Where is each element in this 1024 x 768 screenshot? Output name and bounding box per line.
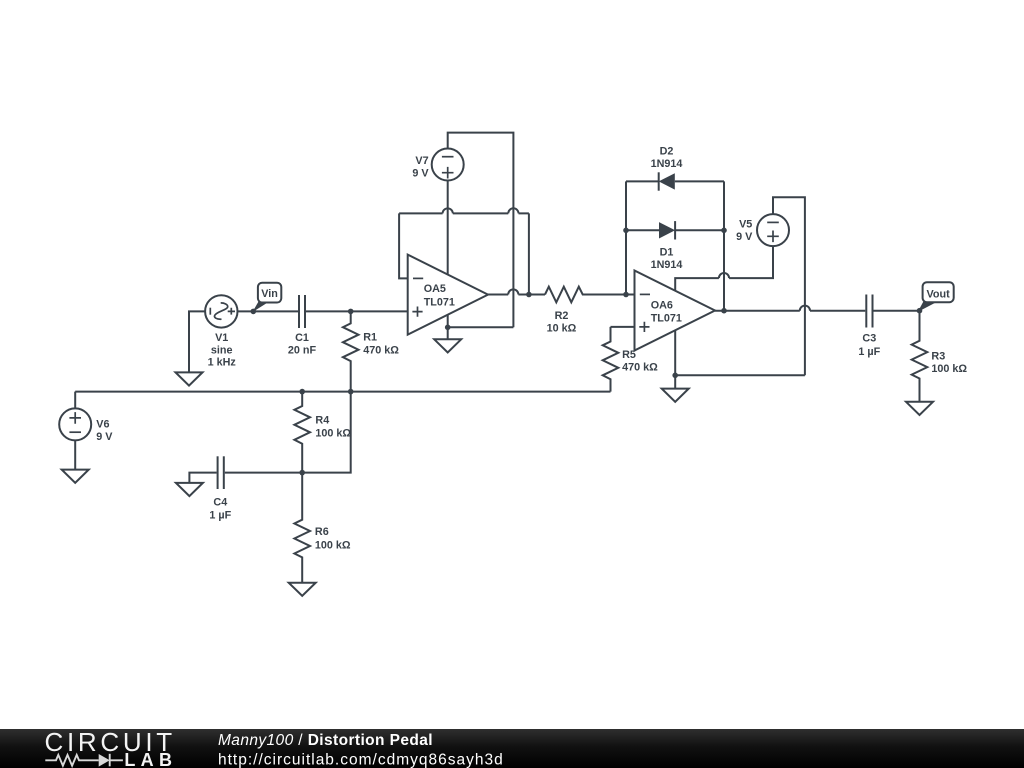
resistor R1 470 k — [343, 311, 359, 391]
label R5 470 k — [622, 349, 658, 374]
diode D2 1N914 — [626, 172, 724, 190]
svg-text:TL071: TL071 — [651, 312, 682, 324]
wire V1 right terminal to C1 — [238, 310, 299, 312]
ground below OA6 — [662, 389, 689, 402]
svg-text:100 kΩ: 100 kΩ — [315, 428, 351, 440]
op-amp OA5 TL071 — [408, 255, 488, 335]
svg-text:V7: V7 — [415, 155, 428, 167]
op-amp OA6 TL071 — [635, 271, 716, 351]
svg-text:R5: R5 — [622, 349, 636, 361]
ground below R6 — [289, 583, 316, 596]
wire OA6 output to C3 — [715, 310, 865, 312]
svg-text:OA5: OA5 — [424, 283, 446, 295]
ground below C4 — [176, 483, 203, 496]
wire C1 to OA5 noninverting input — [306, 310, 408, 312]
label R1 470 k — [363, 331, 399, 356]
ground below V1 — [176, 372, 203, 385]
wire OA6 ground node to V5 loop — [675, 374, 805, 376]
svg-text:470 kΩ: 470 kΩ — [622, 362, 658, 374]
resistor R2 10 k — [545, 287, 635, 303]
svg-text:1 kHz: 1 kHz — [208, 356, 237, 368]
svg-text:R6: R6 — [315, 526, 329, 538]
resistor R4 100 k — [294, 392, 310, 473]
wire diode branch right riser — [723, 181, 725, 310]
svg-text:D1: D1 — [660, 246, 674, 258]
label D2 1N914 — [651, 146, 683, 171]
svg-text:20 nF: 20 nF — [288, 344, 317, 356]
svg-text:9 V: 9 V — [736, 231, 753, 243]
label R6 100 k — [315, 526, 351, 551]
node OA6 inverting input junction dot — [623, 292, 629, 298]
label V1 sine 1 kHz — [208, 332, 237, 368]
diode D1 1N914 — [626, 221, 724, 239]
wire OA5 inverting input to feedback — [399, 213, 408, 278]
svg-text:OA6: OA6 — [651, 300, 673, 312]
svg-text:1 µF: 1 µF — [858, 346, 880, 358]
svg-text:470 kΩ: 470 kΩ — [363, 345, 399, 357]
svg-text:sine: sine — [211, 344, 233, 356]
wire V5 positive terminal to OA6 V+ pin — [675, 246, 773, 291]
wire OA6 noninverting input — [611, 326, 635, 328]
wire hop output over V5 loop — [800, 306, 810, 311]
label V7 9 V — [412, 155, 429, 179]
wire V7 negative terminal loop — [448, 133, 514, 328]
wire V7 positive terminal to OA5 V+ pin — [447, 180, 449, 274]
svg-text:C4: C4 — [213, 496, 227, 508]
wire C4 left plate to ground — [189, 473, 216, 483]
label V5 9 V — [736, 219, 753, 244]
label C4 1 uF — [209, 496, 231, 521]
wire V6 positive terminal to rail — [74, 392, 76, 409]
node Vout junction dot — [917, 308, 923, 314]
svg-text:R2: R2 — [555, 310, 569, 322]
node feedback/output junction dot — [526, 292, 532, 298]
wire diode branch left riser — [625, 181, 627, 294]
wire V5 negative terminal loop — [773, 197, 805, 375]
svg-text:V5: V5 — [739, 219, 752, 231]
wire hop over V7 lead — [443, 208, 453, 213]
svg-text:9 V: 9 V — [96, 431, 113, 443]
resistor R5 470 k — [603, 327, 619, 392]
label R4 100 k — [315, 415, 351, 440]
wire feedback down to output — [528, 213, 530, 294]
label OA5 TL071 — [424, 283, 455, 308]
svg-text:1N914: 1N914 — [651, 158, 683, 170]
svg-text:100 kΩ: 100 kΩ — [315, 539, 351, 551]
flag Vin — [252, 283, 281, 313]
flag Vout — [918, 282, 954, 312]
svg-text:Vout: Vout — [927, 289, 951, 301]
wire C4 right plate to bias node — [225, 472, 302, 474]
wire rail to bias node loop — [302, 392, 351, 473]
wire hop over supply lead — [508, 208, 518, 213]
svg-text:R3: R3 — [931, 351, 945, 363]
node R4 top junction dot — [299, 389, 305, 395]
node D1 left junction dot — [623, 228, 629, 234]
node OA5 V- junction dot — [445, 325, 451, 331]
ground below OA5 — [434, 339, 461, 352]
wire OA5 output — [488, 294, 545, 296]
wire C3 to Vout — [874, 310, 920, 312]
resistor R6 100 k — [294, 473, 310, 583]
wire V1 left terminal to ground — [189, 311, 206, 372]
svg-text:LAB: LAB — [124, 750, 177, 768]
wire OA6 V- pin to ground — [674, 331, 676, 389]
wire V6 negative terminal to ground — [74, 440, 76, 469]
label R3 100 k — [931, 351, 967, 376]
svg-text:R4: R4 — [315, 415, 329, 427]
resistor R3 100 k — [912, 311, 928, 402]
node Vin junction dot — [251, 309, 257, 315]
capacitor C4 1 uF — [218, 456, 224, 489]
wire bias rail — [75, 391, 610, 393]
svg-text:V6: V6 — [96, 419, 109, 431]
node junction dot C1/R1 — [348, 309, 354, 315]
svg-text:10 kΩ: 10 kΩ — [547, 323, 577, 335]
svg-text:1 µF: 1 µF — [209, 510, 231, 522]
wire hop over diode riser — [719, 273, 729, 278]
svg-text:TL071: TL071 — [424, 296, 455, 308]
wire feedback top run — [399, 212, 529, 214]
node OA6 ground junction dot — [672, 373, 678, 379]
svg-text:Vin: Vin — [261, 288, 278, 300]
node D1 right junction dot — [721, 228, 727, 234]
label R2 10 k — [547, 310, 577, 335]
ground below V6 — [62, 470, 89, 483]
svg-text:1N914: 1N914 — [651, 259, 683, 271]
label C3 1 uF — [858, 333, 880, 358]
svg-text:V1: V1 — [215, 332, 228, 344]
wire hop output over supply lead — [508, 289, 518, 294]
svg-text:http://circuitlab.com/cdmyq86s: http://circuitlab.com/cdmyq86sayh3d — [218, 751, 504, 768]
voltage source V1 (sine 1 kHz) — [205, 295, 237, 327]
wire OA5 V- pin to ground — [447, 315, 449, 340]
svg-text:100 kΩ: 100 kΩ — [931, 363, 967, 375]
label V6 9 V — [96, 419, 113, 444]
svg-text:C1: C1 — [295, 332, 309, 344]
node R1 bottom junction dot — [348, 389, 354, 395]
node bias junction dot — [299, 470, 305, 476]
logo schematic glyph — [45, 754, 123, 767]
wire OA5 V- node to supply loop — [448, 326, 514, 328]
label OA6 TL071 — [651, 300, 682, 325]
voltage source V6 9 V — [59, 408, 91, 440]
svg-text:C3: C3 — [862, 333, 876, 345]
node OA6 output junction dot — [721, 308, 727, 314]
capacitor C3 1 uF — [866, 295, 872, 328]
label D1 1N914 — [651, 246, 683, 270]
label C1 20 nF — [288, 332, 317, 356]
footer bar — [0, 729, 1024, 768]
voltage source V7 9 V — [432, 149, 464, 181]
capacitor C1 20 nF — [299, 295, 305, 328]
voltage source V5 9 V — [757, 214, 789, 246]
svg-text:D2: D2 — [660, 146, 674, 158]
svg-text:9 V: 9 V — [412, 168, 429, 180]
ground below R3 — [906, 402, 933, 415]
svg-text:Manny100 / Distortion Pedal: Manny100 / Distortion Pedal — [218, 732, 433, 749]
svg-text:R1: R1 — [363, 331, 377, 343]
